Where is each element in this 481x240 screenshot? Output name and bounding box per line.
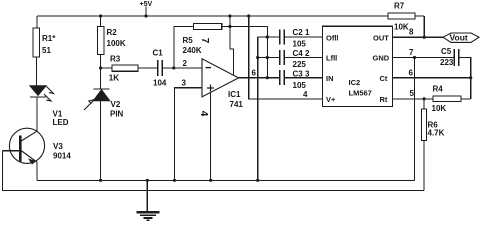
- svg-text:9014: 9014: [53, 152, 71, 161]
- resistor R1: [33, 16, 56, 86]
- capacitor C5: [440, 47, 471, 99]
- resistor R5: [174, 14, 267, 68]
- wire pin4: [210, 92, 212, 180]
- svg-text:C2 1: C2 1: [293, 28, 310, 37]
- wire OUT pin8: [393, 16, 444, 39]
- svg-text:R3: R3: [110, 55, 121, 64]
- svg-text:100K: 100K: [107, 39, 126, 48]
- svg-text:Vout: Vout: [450, 33, 468, 43]
- svg-text:IN: IN: [326, 74, 334, 83]
- wire top +5V rail: [37, 15, 424, 17]
- wire pin3: [175, 79, 203, 181]
- svg-text:6: 6: [409, 69, 414, 78]
- svg-text:LED: LED: [53, 118, 69, 127]
- svg-text:IC2: IC2: [349, 78, 361, 87]
- svg-text:3: 3: [182, 79, 187, 88]
- resistor R6: [422, 99, 445, 191]
- wire Ct pin6: [393, 69, 473, 80]
- capacitor C1: [153, 49, 203, 88]
- svg-text:223: 223: [440, 58, 454, 67]
- svg-text:2: 2: [183, 59, 188, 68]
- svg-text:Ct: Ct: [380, 74, 388, 83]
- svg-text:10K: 10K: [394, 23, 409, 32]
- photodiode V2: [84, 89, 124, 180]
- resistor R4: [432, 85, 471, 114]
- wire Rt pin5: [393, 89, 434, 100]
- svg-text:6: 6: [252, 69, 257, 78]
- svg-text:+5V: +5V: [140, 1, 153, 8]
- svg-text:V3: V3: [53, 142, 63, 151]
- wire 741 pin7 supply: [199, 16, 234, 75]
- svg-text:7: 7: [409, 48, 414, 57]
- svg-text:C1: C1: [153, 49, 164, 58]
- svg-text:R4: R4: [433, 85, 444, 94]
- wire GND pin7: [393, 48, 455, 180]
- svg-text:4: 4: [198, 111, 209, 117]
- svg-text:4: 4: [303, 90, 308, 99]
- svg-text:Rt: Rt: [380, 95, 388, 104]
- op-amp U1 IC1 741: [198, 59, 243, 117]
- svg-text:Lfll: Lfll: [326, 54, 337, 63]
- svg-text:C3 3: C3 3: [293, 70, 310, 79]
- capacitor C3: [280, 70, 323, 100]
- svg-text:PIN: PIN: [110, 110, 124, 119]
- svg-text:OUT: OUT: [373, 33, 389, 42]
- transistor V3: [3, 128, 72, 180]
- svg-text:105: 105: [293, 81, 307, 90]
- wire op-amp output pin6: [239, 69, 280, 78]
- svg-text:1K: 1K: [109, 74, 119, 83]
- svg-text:GND: GND: [373, 54, 390, 63]
- wire bus R5-feedback to output: [266, 27, 269, 80]
- wire base return rail: [3, 151, 425, 191]
- svg-text:C5: C5: [441, 47, 452, 56]
- resistor R3: [101, 55, 158, 83]
- svg-text:4.7K: 4.7K: [428, 129, 445, 138]
- IC U2 LM567: [323, 26, 393, 106]
- capacitor C4: [258, 49, 323, 69]
- svg-text:R2: R2: [107, 28, 118, 37]
- svg-text:10K: 10K: [432, 104, 447, 113]
- wire ground rail: [37, 179, 415, 182]
- svg-text:V2: V2: [111, 100, 121, 109]
- resistor R7: [388, 2, 415, 32]
- svg-text:R5: R5: [183, 36, 194, 45]
- svg-text:8: 8: [409, 28, 414, 37]
- node +5V: [140, 1, 153, 18]
- resistor R2: [97, 14, 126, 89]
- svg-text:741: 741: [230, 100, 244, 109]
- node C1/R5 junction: [172, 66, 175, 69]
- svg-text:LM567: LM567: [349, 89, 372, 98]
- svg-text:7: 7: [199, 38, 210, 44]
- svg-text:V+: V+: [326, 95, 336, 104]
- capacitor C2: [258, 28, 323, 49]
- svg-text:51: 51: [42, 46, 51, 55]
- svg-text:R1*: R1*: [42, 34, 56, 43]
- svg-text:105: 105: [293, 40, 307, 49]
- wire IC2 V+ supply: [247, 14, 322, 98]
- ground: [137, 180, 160, 220]
- svg-text:104: 104: [153, 79, 167, 88]
- wire ground bus C2/C4: [256, 37, 259, 180]
- node R2/R3 junction: [99, 66, 102, 69]
- svg-text:5: 5: [410, 89, 415, 98]
- svg-text:Ofll: Ofll: [326, 33, 339, 42]
- svg-text:IC1: IC1: [228, 90, 241, 99]
- svg-text:240K: 240K: [183, 46, 202, 55]
- svg-text:225: 225: [293, 60, 307, 69]
- svg-text:R7: R7: [394, 2, 405, 11]
- svg-text:C4 2: C4 2: [293, 49, 310, 58]
- LED V1: [30, 86, 69, 132]
- Vout flag: [443, 33, 479, 43]
